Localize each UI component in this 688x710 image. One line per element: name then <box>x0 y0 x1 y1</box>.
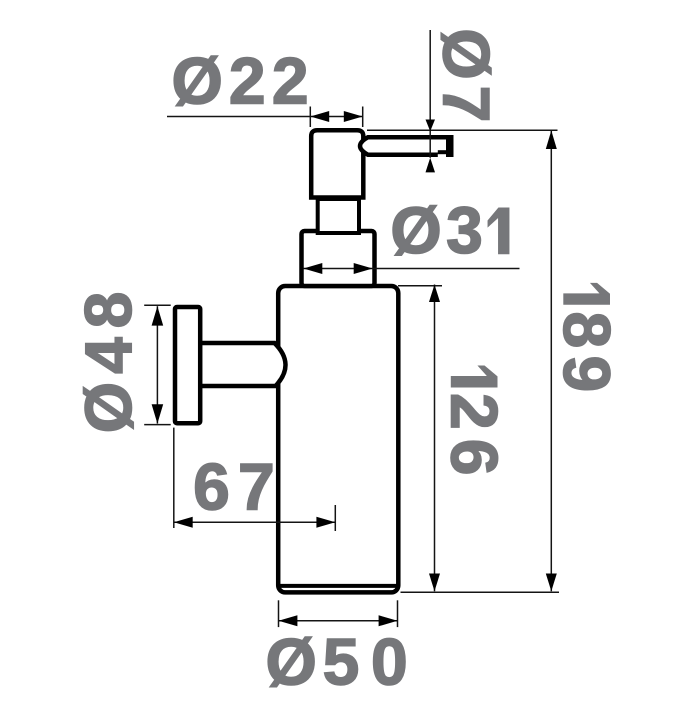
svg-text:Ø3: Ø3 <box>390 193 483 267</box>
svg-text:Ø22: Ø22 <box>172 44 309 118</box>
svg-text:Ø50: Ø50 <box>266 625 408 699</box>
svg-text:Ø48: Ø48 <box>71 292 145 434</box>
svg-text:Ø7: Ø7 <box>430 28 504 122</box>
